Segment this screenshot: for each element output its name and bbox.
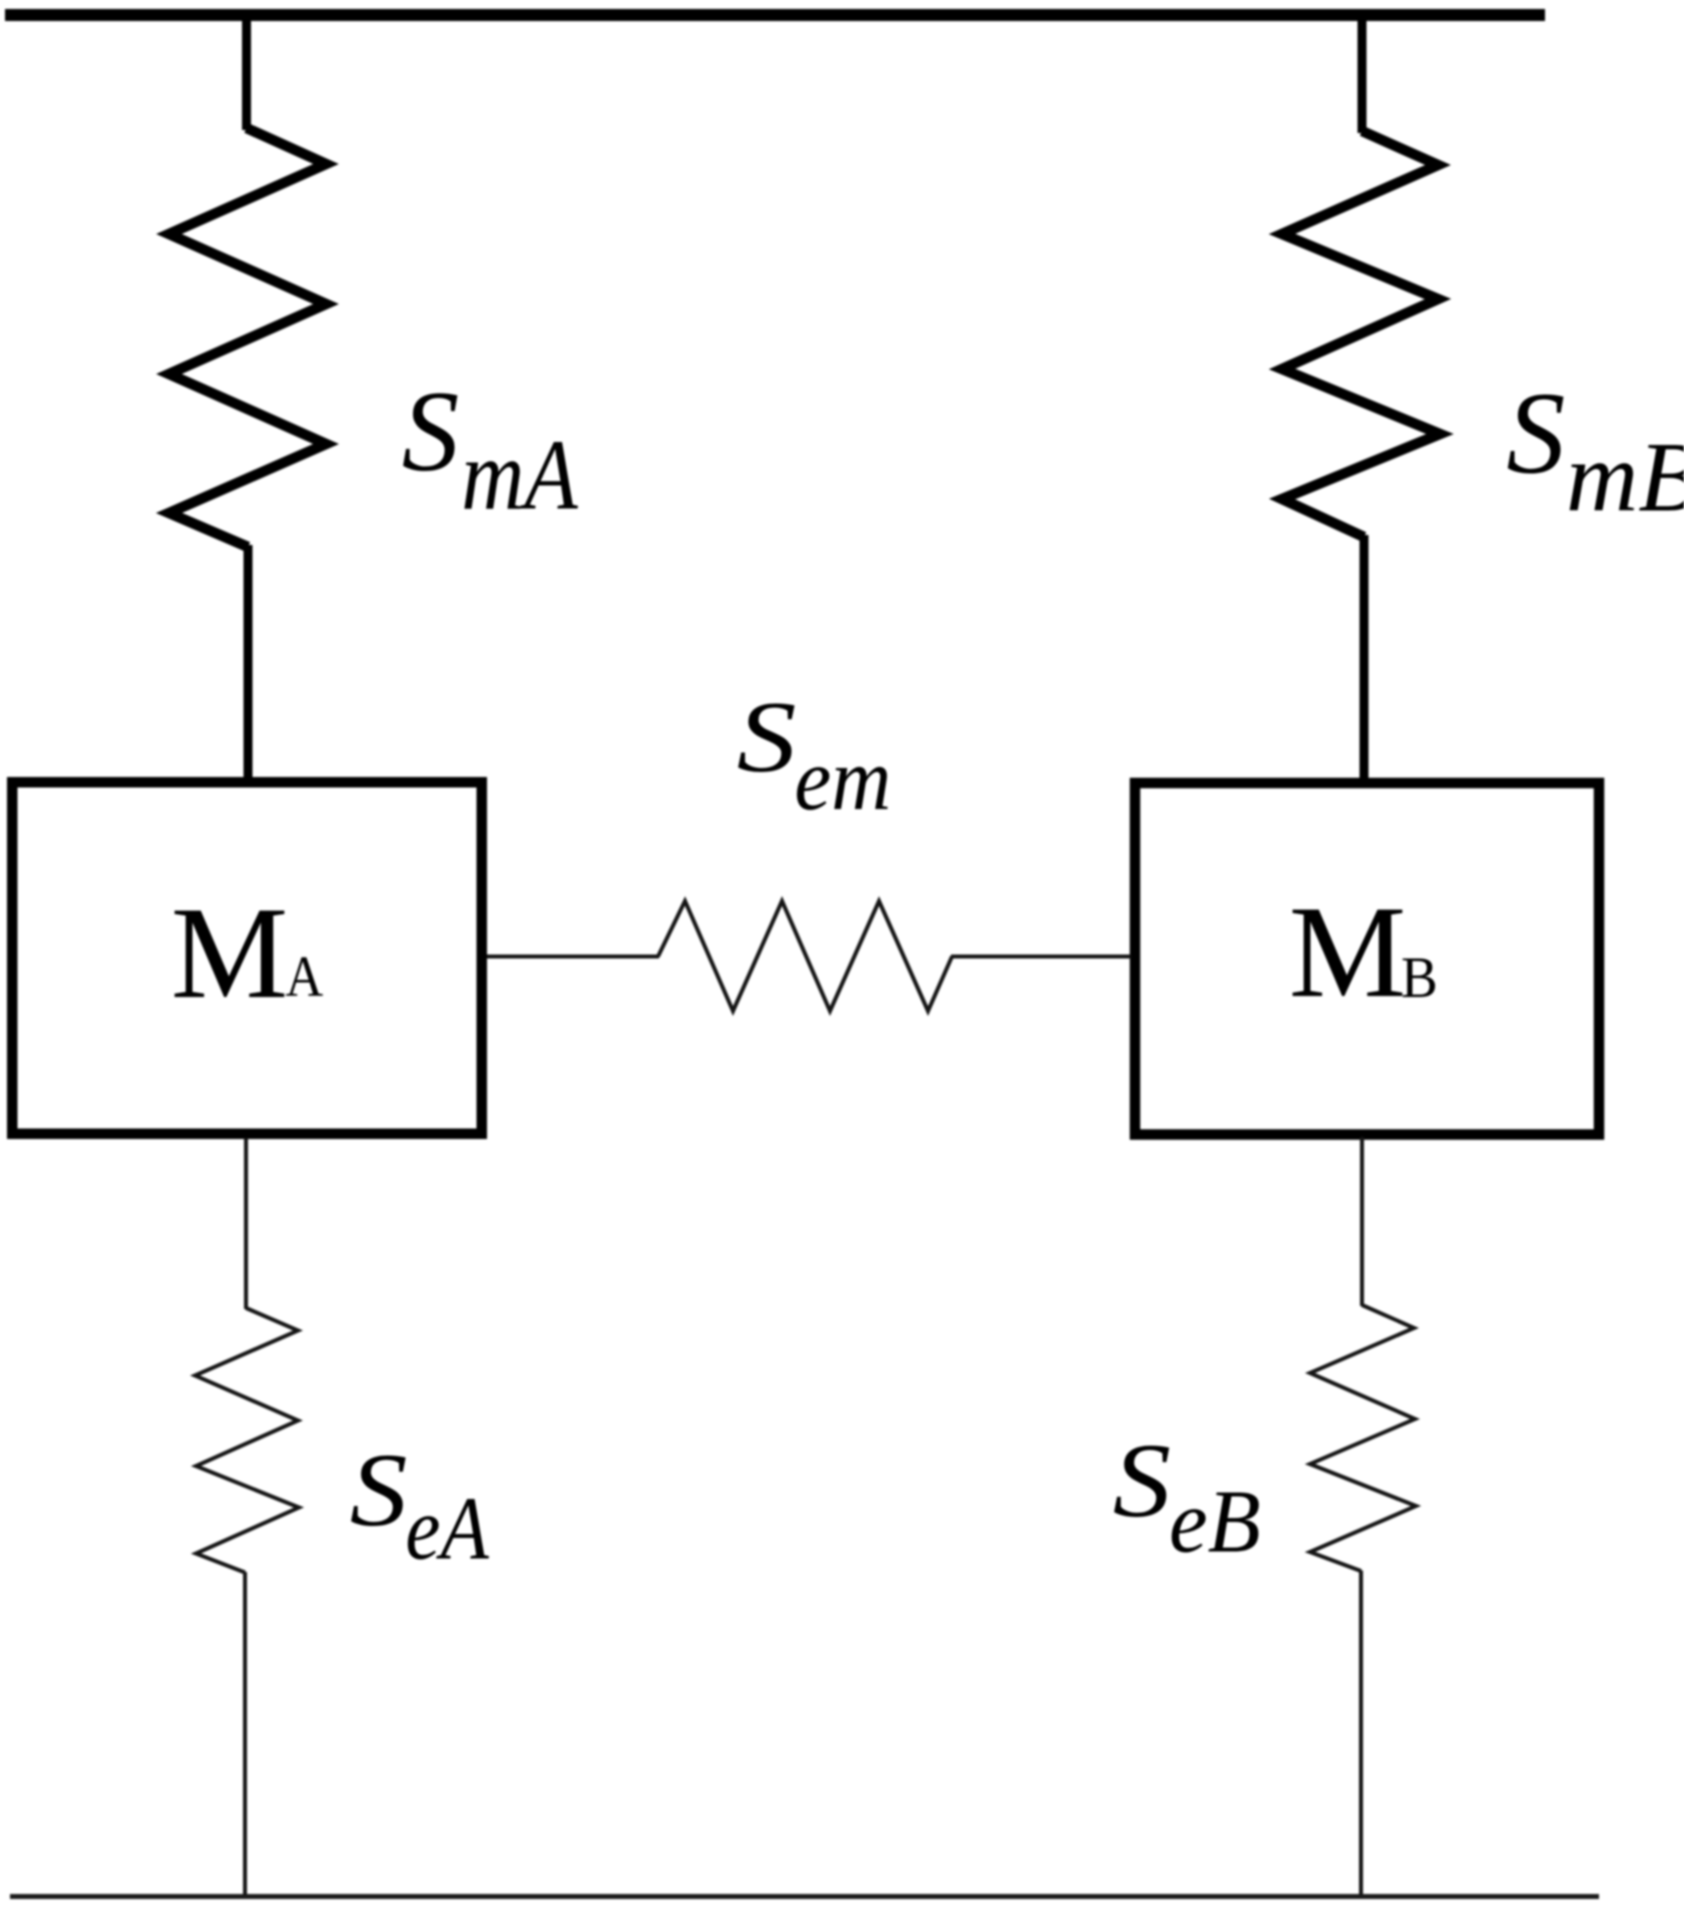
svg-text:S: S <box>737 681 797 794</box>
svg-text:eB: eB <box>1169 1472 1261 1572</box>
svg-text:mA: mA <box>461 420 578 531</box>
svg-text:S: S <box>1506 368 1565 499</box>
svg-text:eA: eA <box>405 1480 490 1579</box>
svg-text:em: em <box>794 729 891 828</box>
svg-text:mB: mB <box>1566 422 1684 533</box>
svg-text:M: M <box>171 879 288 1026</box>
svg-text:A: A <box>286 944 324 1008</box>
svg-text:S: S <box>1113 1423 1171 1540</box>
svg-text:S: S <box>350 1432 408 1548</box>
svg-text:B: B <box>1401 947 1438 1011</box>
svg-text:S: S <box>402 368 460 495</box>
svg-text:M: M <box>1289 878 1406 1025</box>
